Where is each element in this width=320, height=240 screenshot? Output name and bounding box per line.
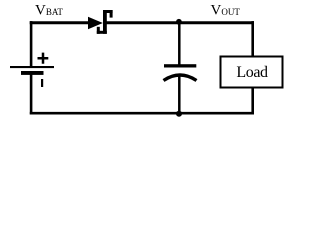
battery B1 negative plate [21, 71, 44, 75]
junction: capacitor bottom rail dot [176, 111, 182, 117]
svg-text:VBAT: VBAT [35, 2, 63, 18]
battery plus sign [38, 53, 49, 64]
wire: battery positive lead [30, 21, 33, 67]
junction: VOUT node dot on top rail [176, 19, 182, 25]
wire: capacitor top lead [178, 22, 181, 66]
wire: bottom rail [30, 112, 254, 115]
svg-text:VOUT: VOUT [211, 2, 241, 18]
battery minus mark [41, 79, 43, 87]
capacitor C1 top plate [164, 64, 196, 67]
capacitor C1 bottom plate (curved) [164, 75, 197, 81]
svg-text:Load: Load [236, 64, 268, 81]
wire: battery negative lead [30, 75, 33, 115]
wire: load top lead [251, 21, 254, 56]
battery B1 positive plate [10, 66, 54, 68]
wire: capacitor bottom lead [178, 76, 181, 115]
wire: load bottom lead [251, 88, 254, 115]
wire: top rail right segment (diode cathode to load corner) [105, 21, 254, 24]
diode D1 (Schottky) [88, 10, 113, 34]
load box [221, 57, 283, 88]
wire: top rail left segment (battery to diode anode) [30, 21, 90, 24]
